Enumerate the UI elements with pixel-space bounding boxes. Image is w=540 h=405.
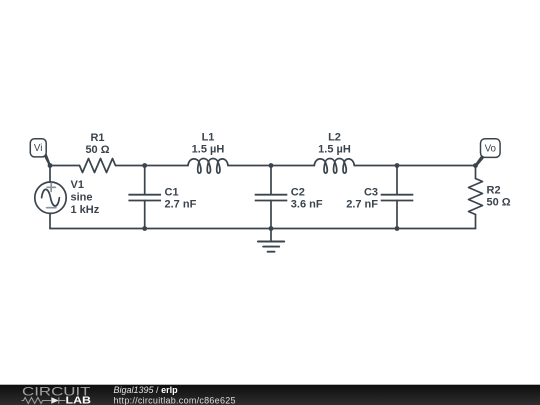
svg-text:Vo: Vo xyxy=(485,144,497,155)
node C1 bottom dot xyxy=(142,226,147,231)
node C2 bottom dot (ground) xyxy=(269,226,274,231)
svg-text:1.5 µH: 1.5 µH xyxy=(192,144,225,156)
wire: Vi node down to V1 top xyxy=(49,166,51,183)
svg-text:C3: C3 xyxy=(364,187,378,199)
svg-text:1 kHz: 1 kHz xyxy=(71,204,100,216)
capacitor C2 plates xyxy=(255,195,288,201)
wire bottom rail xyxy=(50,228,476,230)
node Vo junction dot xyxy=(473,163,478,168)
footer logo diode triangle xyxy=(51,397,59,404)
voltage source V1 circle xyxy=(35,182,66,213)
voltage source V1 sine wave xyxy=(42,189,60,206)
svg-text:L1: L1 xyxy=(202,132,215,144)
svg-text:2.7 nF: 2.7 nF xyxy=(165,199,197,211)
ground symbol xyxy=(258,242,284,252)
wire: C3 top stub xyxy=(396,166,398,195)
svg-text:Bigal1395 / erlp: Bigal1395 / erlp xyxy=(114,385,179,395)
inductor L1 xyxy=(188,159,228,174)
wire: C1 top stub xyxy=(144,166,146,195)
svg-text:3.6 nF: 3.6 nF xyxy=(291,199,323,211)
svg-text:R2: R2 xyxy=(487,185,501,197)
node flag Vi pointer xyxy=(43,154,51,167)
svg-text:1.5 µH: 1.5 µH xyxy=(318,144,351,156)
capacitor C1 plates xyxy=(128,195,161,201)
node C1 top dot xyxy=(142,163,147,168)
wire: ground stub below bottom rail xyxy=(270,229,272,242)
svg-text:LAB: LAB xyxy=(66,396,92,405)
wire: R2 bottom to bottom rail xyxy=(475,215,477,229)
wire top rail: L2 to Vo node (through C3 node) xyxy=(354,165,475,167)
wire: Vo node down to R2 top xyxy=(475,166,477,179)
svg-text:C2: C2 xyxy=(291,187,305,199)
node C2 top dot xyxy=(269,163,274,168)
inductor L2 xyxy=(314,159,354,174)
voltage source V1 minus sign xyxy=(47,207,56,209)
svg-text:http://circuitlab.com/c86e625: http://circuitlab.com/c86e625 xyxy=(114,395,236,405)
node C3 top dot xyxy=(395,163,400,168)
svg-text:50 Ω: 50 Ω xyxy=(85,144,109,156)
resistor R2 xyxy=(469,179,483,215)
wire top rail: Vi node to R1 xyxy=(50,165,80,167)
svg-text:L2: L2 xyxy=(328,132,341,144)
resistor R1 xyxy=(80,159,116,173)
svg-text:50 Ω: 50 Ω xyxy=(487,197,511,209)
capacitor C3 plates xyxy=(381,195,414,201)
wire top rail: R1 to L1 (through C1 node) xyxy=(116,165,189,167)
node C3 bottom dot xyxy=(395,226,400,231)
svg-text:C1: C1 xyxy=(165,187,179,199)
svg-text:sine: sine xyxy=(71,191,93,203)
svg-text:R1: R1 xyxy=(90,132,104,144)
svg-text:V1: V1 xyxy=(71,179,84,191)
node flag Vo box xyxy=(481,139,501,158)
svg-text:Vi: Vi xyxy=(34,143,43,154)
node flag Vo pointer xyxy=(475,155,486,167)
node flag Vi box xyxy=(30,139,46,157)
wire: C2 bottom stub xyxy=(270,201,272,229)
wire: C2 top stub xyxy=(270,166,272,195)
voltage source V1 plus sign xyxy=(47,183,56,208)
node Vi junction dot xyxy=(48,163,53,168)
footer logo resistor+diode glyph xyxy=(22,397,66,403)
wire: V1 bottom to bottom rail xyxy=(49,213,51,228)
wire top rail: L1 to L2 (through C2 node) xyxy=(228,165,314,167)
wire: C3 bottom stub xyxy=(396,201,398,229)
wire: C1 bottom stub xyxy=(144,201,146,229)
svg-text:2.7 nF: 2.7 nF xyxy=(346,199,378,211)
